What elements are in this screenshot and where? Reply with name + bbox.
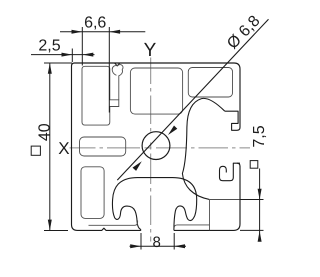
leader line diameter <box>117 19 268 180</box>
chamber top-center <box>130 68 182 114</box>
dim 7,5 arrow bottom <box>258 231 262 242</box>
dim 7,5 line <box>259 169 261 242</box>
dim 2,5 arrow right <box>83 53 94 57</box>
leader arrow upper <box>168 126 177 136</box>
dim 8 arrow right <box>174 244 185 248</box>
dim 2,5 ext left <box>71 49 73 63</box>
corner foot line horizontal <box>210 199 240 201</box>
dim 2,5 arrow left <box>62 53 73 57</box>
chamber top-right <box>188 68 232 98</box>
chamber bottom-left <box>81 167 104 219</box>
dim 40 line <box>49 63 51 230</box>
dim 40 arrow top <box>48 63 52 74</box>
leader arrow lower <box>133 161 142 171</box>
bottom face left segment with corner notch and left face <box>72 63 141 230</box>
surface square symbol right <box>250 161 258 169</box>
bottom slot left arm floor <box>89 221 138 226</box>
dim 7,5 ext bottom <box>240 229 264 231</box>
dim 7,5 ext top <box>240 199 264 201</box>
dim 40 ext top <box>44 62 72 64</box>
centerline Y axis <box>150 58 152 242</box>
dim 8 line <box>130 245 187 247</box>
chamber middle-left <box>80 137 126 156</box>
svg-text:7,5: 7,5 <box>251 125 268 147</box>
top face notch <box>115 63 120 66</box>
dim 6,6 arrow right <box>109 30 120 34</box>
corner foot line vertical <box>209 200 211 231</box>
svg-text:40: 40 <box>36 123 53 141</box>
dim 40 arrow bottom <box>48 220 52 231</box>
centerline X axis <box>70 147 251 149</box>
dim 7,5 arrow top <box>258 189 262 200</box>
outer profile outline: top, left, bottom faces and right face <box>75 63 241 130</box>
dim 2,5 line <box>31 54 95 56</box>
dim 6,6 arrow left <box>72 30 83 34</box>
svg-text:6,6: 6,6 <box>84 15 106 32</box>
svg-text:Y: Y <box>144 40 157 61</box>
svg-text:2,5: 2,5 <box>38 38 60 55</box>
dim 8 ext right <box>173 233 175 250</box>
dim 6,6 line <box>60 31 145 33</box>
dim 40 ext bottom <box>44 230 68 232</box>
right T-slot cavity wall (bean) <box>182 98 224 199</box>
right face lower segment <box>174 163 240 230</box>
dim 8 arrow left <box>130 244 141 248</box>
right T-slot upper lip hook <box>225 111 238 130</box>
chamber top-left with keyway notch <box>82 66 119 125</box>
dim 6,6 ext left <box>81 27 83 66</box>
dim 6,6 ext right <box>108 27 110 113</box>
svg-text:X: X <box>58 139 69 158</box>
svg-text:8: 8 <box>153 234 161 251</box>
screw channel head top-left <box>112 65 123 100</box>
bottom slot right arm floor <box>174 225 209 228</box>
surface square symbol left <box>31 146 40 155</box>
bottom T-slot cavity: dome, valleys, finger lips <box>112 178 196 231</box>
center hole circle <box>142 132 170 160</box>
right T-slot lower lip curl <box>220 163 241 181</box>
dim 8 ext left <box>140 233 142 250</box>
